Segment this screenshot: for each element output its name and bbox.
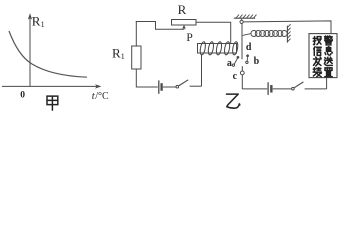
svg-text:b: b [254,56,260,67]
svg-text:c: c [233,71,238,82]
svg-text:1: 1 [41,20,45,29]
svg-text:R: R [178,2,187,17]
svg-text:0: 0 [20,91,25,101]
svg-text:P: P [186,32,192,44]
svg-text:d: d [246,42,252,53]
svg-text:1: 1 [121,52,125,61]
svg-text:/°C: /°C [95,91,109,102]
svg-text:a: a [227,58,232,69]
svg-text:R: R [32,14,41,29]
svg-text:R: R [112,45,121,60]
